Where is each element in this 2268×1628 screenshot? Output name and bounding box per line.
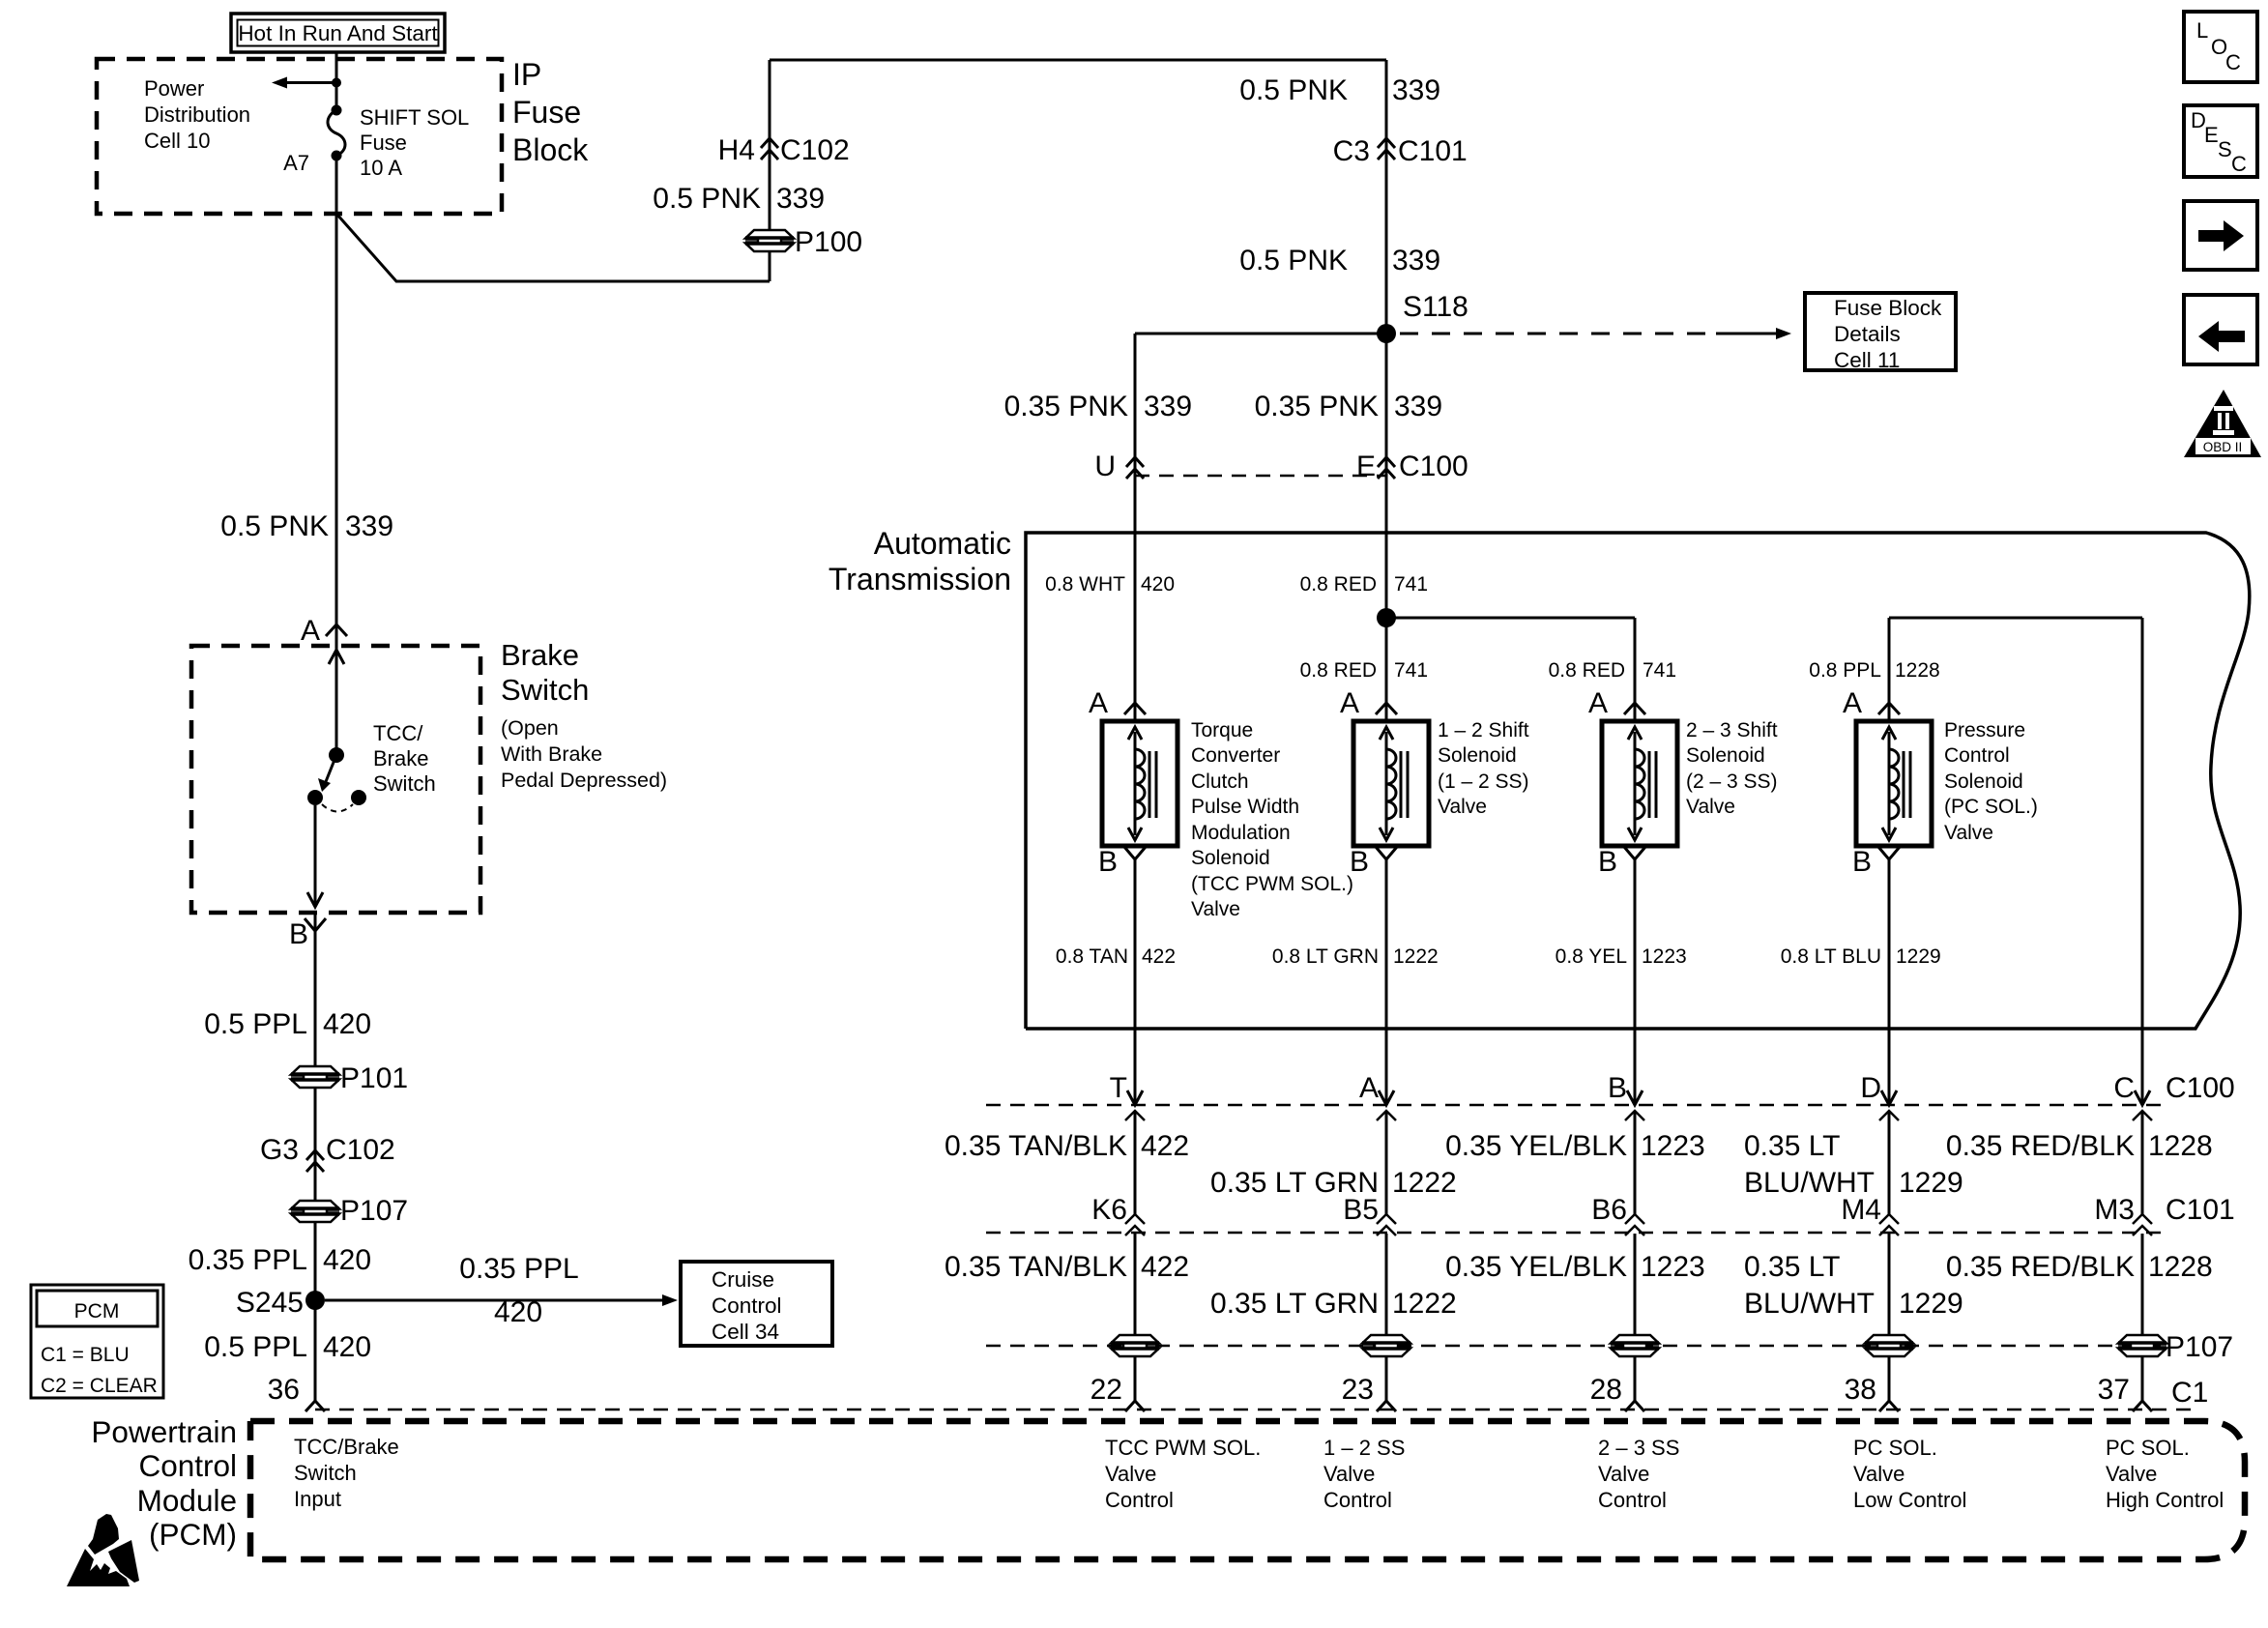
svg-text:422: 422 (1141, 1130, 1189, 1162)
svg-text:0.8 TAN: 0.8 TAN (1056, 945, 1128, 968)
solenoid 2-3 valve coil (1602, 721, 1677, 846)
splice S245 (305, 1291, 325, 1310)
svg-text:10 A: 10 A (360, 156, 402, 180)
svg-text:1223: 1223 (1642, 945, 1687, 968)
connector chevrons B6 (C101) (1625, 1214, 1644, 1224)
svg-text:M4: M4 (1841, 1194, 1881, 1226)
svg-text:P100: P100 (795, 226, 862, 258)
wire B down to PCM pin 36 (314, 913, 317, 1401)
svg-text:Valve: Valve (1598, 1462, 1649, 1486)
wire P100 vertical (769, 60, 771, 281)
svg-text:Torque: Torque (1191, 719, 1253, 741)
wire B to B6 (1634, 1111, 1637, 1214)
svg-text:28: 28 (1590, 1374, 1622, 1406)
grommet P107 (left wire) (291, 1201, 339, 1209)
svg-text:1228: 1228 (1895, 659, 1940, 682)
splice S118 (1377, 324, 1396, 343)
connector C101 dashed face (986, 1232, 2170, 1235)
svg-text:C: C (2113, 1072, 2135, 1104)
svg-text:S118: S118 (1403, 291, 1468, 323)
connector chevron pin 23 (1377, 1401, 1396, 1411)
svg-text:420: 420 (1141, 573, 1175, 596)
OBD II symbol (2184, 390, 2261, 457)
PCM connector legend box (31, 1285, 163, 1398)
svg-text:0.8 RED: 0.8 RED (1549, 659, 1625, 682)
svg-text:23: 23 (1342, 1374, 1374, 1406)
svg-text:C1: C1 (2171, 1377, 2208, 1409)
svg-text:K6: K6 (1091, 1194, 1127, 1226)
svg-text:0.35 LT GRN: 0.35 LT GRN (1210, 1288, 1379, 1320)
svg-text:0.8 WHT: 0.8 WHT (1045, 573, 1125, 596)
wire K6 down (1134, 1234, 1137, 1401)
switch blade TCC/Brake Switch (325, 755, 336, 784)
svg-text:(PC SOL.): (PC SOL.) (1944, 796, 2038, 818)
solenoid TCC PWM valve coil (1102, 721, 1178, 846)
arrow into C100 pin T (1127, 1090, 1143, 1105)
connector H4 C102 chevrons (761, 138, 778, 148)
svg-text:422: 422 (1142, 945, 1176, 968)
svg-text:Pressure: Pressure (1944, 719, 2025, 741)
IP fuse block dashed outline (97, 59, 502, 214)
svg-text:Brake: Brake (373, 746, 428, 770)
svg-text:Switch: Switch (373, 771, 436, 796)
svg-text:Control: Control (138, 1448, 237, 1483)
svg-text:420: 420 (323, 1008, 371, 1040)
connector C3 C101 chevrons (1378, 138, 1395, 148)
svg-text:Valve: Valve (2106, 1462, 2157, 1486)
svg-text:B: B (1098, 846, 1118, 878)
svg-text:Fuse: Fuse (512, 95, 581, 130)
svg-text:0.5 PNK: 0.5 PNK (1239, 74, 1348, 106)
wire top horizontal run (770, 59, 1386, 62)
svg-text:U: U (1094, 451, 1116, 482)
svg-text:TCC/: TCC/ (373, 721, 423, 745)
connector chevron pin 28 (1625, 1401, 1644, 1411)
connector chevron pin 38 (1879, 1401, 1899, 1411)
svg-text:T: T (1110, 1072, 1127, 1104)
svg-text:(1 – 2 SS): (1 – 2 SS) (1438, 770, 1529, 793)
wire TCC solenoid B down (1134, 859, 1137, 1105)
svg-text:A: A (1340, 687, 1359, 719)
svg-text:C102: C102 (326, 1134, 395, 1166)
svg-text:Powertrain: Powertrain (91, 1414, 237, 1449)
svg-text:D: D (1860, 1072, 1881, 1104)
connector chevron A (326, 625, 347, 636)
svg-text:741: 741 (1394, 573, 1428, 596)
svg-text:B5: B5 (1343, 1194, 1379, 1226)
svg-text:1229: 1229 (1899, 1288, 1963, 1320)
svg-text:With Brake: With Brake (501, 742, 602, 766)
svg-text:C: C (2225, 50, 2241, 74)
svg-text:1 – 2 Shift: 1 – 2 Shift (1438, 719, 1529, 741)
svg-text:0.35 PNK: 0.35 PNK (1004, 391, 1128, 422)
connector chevron B (2-3 solenoid) (1624, 847, 1645, 859)
wire A to B5 (1385, 1111, 1388, 1214)
svg-text:(PCM): (PCM) (149, 1517, 237, 1552)
svg-text:Transmission: Transmission (829, 562, 1011, 596)
svg-text:0.35 TAN/BLK: 0.35 TAN/BLK (945, 1130, 1127, 1162)
connector chevron pin 36 (305, 1401, 325, 1411)
svg-text:1229: 1229 (1896, 945, 1941, 968)
wire M3 down (2141, 1234, 2144, 1401)
svg-text:(2 – 3 SS): (2 – 3 SS) (1686, 770, 1778, 793)
svg-text:B: B (1608, 1072, 1627, 1104)
svg-text:Valve: Valve (1191, 898, 1240, 920)
svg-text:741: 741 (1643, 659, 1676, 682)
svg-text:Automatic: Automatic (874, 526, 1011, 561)
svg-text:Switch: Switch (294, 1461, 357, 1485)
svg-text:22: 22 (1090, 1374, 1122, 1406)
svg-text:0.35 PPL: 0.35 PPL (189, 1244, 307, 1276)
svg-text:P101: P101 (340, 1062, 408, 1094)
svg-text:0.35 PPL: 0.35 PPL (459, 1253, 578, 1285)
grommet P107 column 4 (1865, 1335, 1913, 1344)
svg-text:C101: C101 (1398, 135, 1468, 167)
connector C1 dashed face (315, 1409, 2193, 1411)
connector G3 C102 chevrons (306, 1150, 324, 1160)
svg-text:C102: C102 (780, 134, 850, 166)
svg-text:0.8 YEL: 0.8 YEL (1556, 945, 1627, 968)
switch travel dashed arc (322, 804, 353, 812)
svg-text:Converter: Converter (1191, 744, 1280, 767)
svg-text:1 – 2 SS: 1 – 2 SS (1323, 1436, 1405, 1460)
svg-text:Cell 10: Cell 10 (144, 129, 210, 153)
svg-text:339: 339 (1144, 391, 1192, 422)
svg-text:2 – 3 Shift: 2 – 3 Shift (1686, 719, 1778, 741)
svg-text:Input: Input (294, 1487, 341, 1511)
LOC icon box (2184, 12, 2257, 82)
svg-text:2 – 3 SS: 2 – 3 SS (1598, 1436, 1679, 1460)
connector chevron below C100 pin B (1625, 1111, 1644, 1120)
svg-text:Cell 11: Cell 11 (1834, 348, 1900, 372)
arrow into C100 pin C (2135, 1090, 2150, 1105)
svg-text:Switch: Switch (501, 673, 589, 707)
wire PPL horizontal to high control (1889, 617, 2142, 620)
arrow to power distribution (287, 81, 336, 84)
switch upper contact (329, 747, 344, 763)
wire main PNK vertical (1385, 60, 1388, 721)
connector chevron B (TCC PWM solenoid) (1124, 847, 1146, 859)
svg-text:Pulse Width: Pulse Width (1191, 796, 1299, 818)
svg-text:0.8 RED: 0.8 RED (1300, 659, 1377, 682)
svg-text:M3: M3 (2094, 1194, 2135, 1226)
svg-text:0.35 RED/BLK: 0.35 RED/BLK (1946, 1251, 2135, 1283)
svg-text:Details: Details (1834, 322, 1901, 346)
svg-text:0.35 RED/BLK: 0.35 RED/BLK (1946, 1130, 2135, 1162)
wire T to K6 (1134, 1111, 1137, 1214)
arrow into C100 pin A (1379, 1090, 1394, 1105)
svg-text:A: A (1359, 1072, 1379, 1104)
svg-text:Cell 34: Cell 34 (712, 1320, 779, 1344)
wire M4 down (1888, 1234, 1891, 1401)
svg-text:0.5 PPL: 0.5 PPL (204, 1331, 307, 1363)
svg-text:0.5 PPL: 0.5 PPL (204, 1008, 307, 1040)
junction box title: Hot In Run And Start (231, 14, 445, 52)
svg-text:339: 339 (1394, 391, 1442, 422)
svg-text:0.8 LT GRN: 0.8 LT GRN (1272, 945, 1379, 968)
wire S118 branch to U (1135, 333, 1386, 335)
svg-text:1222: 1222 (1393, 945, 1439, 968)
DESC icon box (2184, 105, 2257, 177)
connector chevron below C100 pin C (2133, 1111, 2152, 1120)
svg-text:H4: H4 (718, 134, 755, 166)
wire fuse to P100 branch (336, 214, 770, 281)
svg-text:Clutch: Clutch (1191, 770, 1249, 793)
svg-text:1223: 1223 (1641, 1251, 1705, 1283)
svg-text:38: 38 (1845, 1374, 1876, 1406)
svg-text:A: A (1089, 687, 1108, 719)
svg-text:B: B (1852, 846, 1872, 878)
svg-text:422: 422 (1141, 1251, 1189, 1283)
svg-text:High Control: High Control (2106, 1488, 2224, 1512)
ESD sensitive symbol (88, 1514, 119, 1555)
svg-text:0.5 PNK: 0.5 PNK (1239, 245, 1348, 276)
svg-text:(Open: (Open (501, 716, 559, 740)
solenoid 1-2 valve coil (1353, 721, 1429, 846)
svg-text:0.5 PNK: 0.5 PNK (220, 510, 329, 542)
connector chevron B (1-2 solenoid) (1376, 847, 1397, 859)
arrow into C100 pin D (1881, 1090, 1897, 1105)
dashed reference arrow to fuse block details (1400, 333, 1716, 335)
svg-text:C: C (2231, 152, 2247, 176)
svg-text:420: 420 (323, 1331, 371, 1363)
svg-text:339: 339 (345, 510, 393, 542)
connector chevron A (TCC PWM solenoid) (1124, 703, 1146, 714)
svg-text:420: 420 (323, 1244, 371, 1276)
svg-text:0.8 LT BLU: 0.8 LT BLU (1781, 945, 1881, 968)
svg-text:Solenoid: Solenoid (1438, 744, 1517, 767)
connector E chevrons (1378, 457, 1395, 467)
svg-text:0.5 PNK: 0.5 PNK (653, 183, 761, 215)
svg-text:L: L (2196, 18, 2208, 43)
svg-text:Distribution: Distribution (144, 102, 250, 127)
svg-text:A: A (1843, 687, 1862, 719)
switch lower contact (307, 790, 323, 805)
svg-text:P107: P107 (340, 1195, 408, 1227)
grommet P107 column 3 (1611, 1335, 1659, 1344)
svg-text:B: B (289, 918, 308, 950)
svg-text:A: A (1588, 687, 1608, 719)
svg-text:PC SOL.: PC SOL. (1853, 1436, 1937, 1460)
connector chevrons M3 (C101) (2133, 1214, 2152, 1224)
switch alternate contact (351, 790, 366, 805)
svg-text:PC SOL.: PC SOL. (2106, 1436, 2190, 1460)
svg-text:Valve: Valve (1944, 822, 1993, 844)
svg-text:339: 339 (1392, 74, 1440, 106)
connector C100 dashed face (transmission) (986, 1104, 2170, 1107)
svg-text:C1 = BLU: C1 = BLU (41, 1344, 130, 1366)
svg-text:Solenoid: Solenoid (1191, 847, 1270, 869)
svg-text:IP: IP (512, 57, 541, 92)
svg-text:Solenoid: Solenoid (1944, 770, 2023, 793)
connector chevron B (PC solenoid) (1878, 847, 1900, 859)
svg-text:Hot In Run And Start: Hot In Run And Start (238, 21, 438, 45)
grommet P101 (291, 1066, 339, 1075)
connector chevrons K6 (C101) (1125, 1214, 1145, 1224)
svg-text:C100: C100 (1399, 451, 1468, 482)
svg-text:420: 420 (494, 1296, 542, 1328)
svg-text:741: 741 (1394, 659, 1428, 682)
svg-text:G3: G3 (260, 1134, 299, 1166)
svg-text:339: 339 (1392, 245, 1440, 276)
left arrow icon box (2184, 295, 2257, 364)
arrow into C100 pin B (1627, 1090, 1643, 1105)
svg-text:Solenoid: Solenoid (1686, 744, 1765, 767)
svg-text:S: S (2218, 137, 2232, 161)
connector chevron below C100 pin A (1377, 1111, 1396, 1120)
wire into brake switch with up arrow (329, 650, 344, 664)
svg-text:C101: C101 (2166, 1194, 2235, 1226)
fuse SHIFT SOL 10A (332, 105, 342, 116)
svg-text:A: A (301, 615, 320, 647)
svg-text:1229: 1229 (1899, 1167, 1963, 1199)
svg-text:Valve: Valve (1438, 796, 1487, 818)
connector chevron below C100 pin T (1125, 1111, 1145, 1120)
svg-text:Module: Module (137, 1483, 237, 1518)
solenoid PC valve coil (1856, 721, 1932, 846)
svg-text:Valve: Valve (1853, 1462, 1905, 1486)
wire U column vertical (1134, 334, 1137, 721)
svg-text:Fuse Block: Fuse Block (1834, 296, 1942, 320)
svg-text:Control: Control (1944, 744, 2010, 767)
wire PC solenoid B down (1888, 859, 1891, 1105)
wire 2-3 solenoid B down (1634, 859, 1637, 1105)
connector chevron pin 37 (2133, 1401, 2152, 1411)
svg-text:SHIFT SOL: SHIFT SOL (360, 105, 469, 130)
connector U chevrons (1126, 457, 1144, 467)
wire C to M3 (2141, 1111, 2144, 1214)
grommet dashed line P107 row (986, 1345, 2170, 1348)
svg-text:PCM: PCM (74, 1300, 120, 1323)
svg-text:0.35 YEL/BLK: 0.35 YEL/BLK (1445, 1251, 1627, 1283)
svg-text:Low Control: Low Control (1853, 1488, 1966, 1512)
svg-text:1223: 1223 (1641, 1130, 1705, 1162)
svg-text:OBD II: OBD II (2203, 440, 2243, 454)
svg-text:Fuse: Fuse (360, 131, 407, 155)
svg-text:Valve: Valve (1105, 1462, 1156, 1486)
svg-text:Cruise: Cruise (712, 1267, 774, 1292)
svg-text:Control: Control (1323, 1488, 1392, 1512)
svg-text:TCC/Brake: TCC/Brake (294, 1435, 399, 1459)
connector chevron A (2-3 solenoid) (1624, 703, 1645, 714)
svg-text:1222: 1222 (1392, 1167, 1457, 1199)
wire S245 to cruise control (325, 1299, 663, 1302)
svg-text:0.35 YEL/BLK: 0.35 YEL/BLK (1445, 1130, 1627, 1162)
brake switch dashed outline (191, 646, 480, 913)
svg-text:C100: C100 (2166, 1072, 2235, 1104)
svg-text:1222: 1222 (1392, 1288, 1457, 1320)
connector chevron B (305, 918, 326, 931)
svg-text:339: 339 (776, 183, 825, 215)
svg-text:Valve: Valve (1323, 1462, 1375, 1486)
svg-text:0.8 PPL: 0.8 PPL (1809, 659, 1881, 682)
svg-text:Modulation: Modulation (1191, 822, 1291, 844)
wire PC high control column (2141, 618, 2144, 1105)
wire RED branch to 2-3 solenoid (1386, 617, 1635, 620)
svg-text:TCC PWM SOL.: TCC PWM SOL. (1105, 1436, 1261, 1460)
svg-text:A7: A7 (283, 151, 309, 175)
svg-text:(TCC PWM SOL.): (TCC PWM SOL.) (1191, 873, 1353, 895)
fuse block details cell box (1805, 293, 1956, 370)
connector chevron A (PC solenoid) (1878, 703, 1900, 714)
svg-text:E: E (2204, 123, 2219, 147)
svg-text:B6: B6 (1591, 1194, 1627, 1226)
connector chevron below C100 pin D (1879, 1111, 1899, 1120)
svg-text:0.35 LT: 0.35 LT (1744, 1130, 1841, 1162)
junction 0.8 RED (1377, 608, 1396, 627)
svg-text:Valve: Valve (1686, 796, 1735, 818)
svg-text:0.8 RED: 0.8 RED (1300, 573, 1377, 596)
wire D to M4 (1888, 1111, 1891, 1214)
wire fuse output down to brake switch (335, 156, 338, 755)
connector chevrons B5 (C101) (1377, 1214, 1396, 1224)
node junction at fuse feed (332, 78, 341, 88)
connector chevron pin 22 (1125, 1401, 1145, 1411)
svg-text:Power: Power (144, 76, 204, 101)
svg-text:Control: Control (1598, 1488, 1667, 1512)
right arrow icon box (2184, 201, 2257, 270)
svg-text:Block: Block (512, 132, 589, 167)
svg-text:E: E (1356, 451, 1376, 482)
svg-text:Control: Control (1105, 1488, 1174, 1512)
svg-text:1228: 1228 (2148, 1251, 2213, 1283)
svg-text:P107: P107 (2166, 1331, 2233, 1363)
wire B6 down (1634, 1234, 1637, 1401)
svg-text:C3: C3 (1333, 135, 1370, 167)
svg-text:BLU/WHT: BLU/WHT (1744, 1288, 1875, 1320)
svg-text:37: 37 (2098, 1374, 2130, 1406)
svg-text:1228: 1228 (2148, 1130, 2213, 1162)
grommet P107 column 5 (2118, 1335, 2166, 1344)
svg-text:0.35 TAN/BLK: 0.35 TAN/BLK (945, 1251, 1127, 1283)
svg-text:B: B (1598, 846, 1617, 878)
cruise control cell box (681, 1262, 832, 1346)
svg-text:Control: Control (712, 1294, 782, 1318)
automatic transmission box outline (1026, 533, 2250, 1029)
svg-text:C2 = CLEAR: C2 = CLEAR (41, 1375, 158, 1397)
connector chevrons M4 (C101) (1879, 1214, 1899, 1224)
wire from Hot In Run to fuse (335, 52, 338, 110)
wire B5 down (1385, 1234, 1388, 1401)
wire from switch to B with down arrow (314, 805, 317, 907)
svg-text:0.35 LT: 0.35 LT (1744, 1251, 1841, 1283)
svg-text:0.35 PNK: 0.35 PNK (1255, 391, 1379, 422)
PCM dashed outline (250, 1421, 2245, 1559)
svg-text:Pedal Depressed): Pedal Depressed) (501, 769, 667, 792)
grommet P107 column 2 (1362, 1335, 1410, 1344)
wire 1-2 solenoid B down (1385, 859, 1388, 1105)
svg-text:Brake: Brake (501, 638, 579, 672)
grommet P100 (745, 230, 794, 239)
connector chevron A (1-2 solenoid) (1376, 703, 1397, 714)
connector C100 dashed face (1135, 475, 1386, 478)
grommet P107 column 1 (1111, 1335, 1159, 1344)
svg-text:S245: S245 (236, 1287, 304, 1319)
svg-text:36: 36 (268, 1374, 300, 1406)
